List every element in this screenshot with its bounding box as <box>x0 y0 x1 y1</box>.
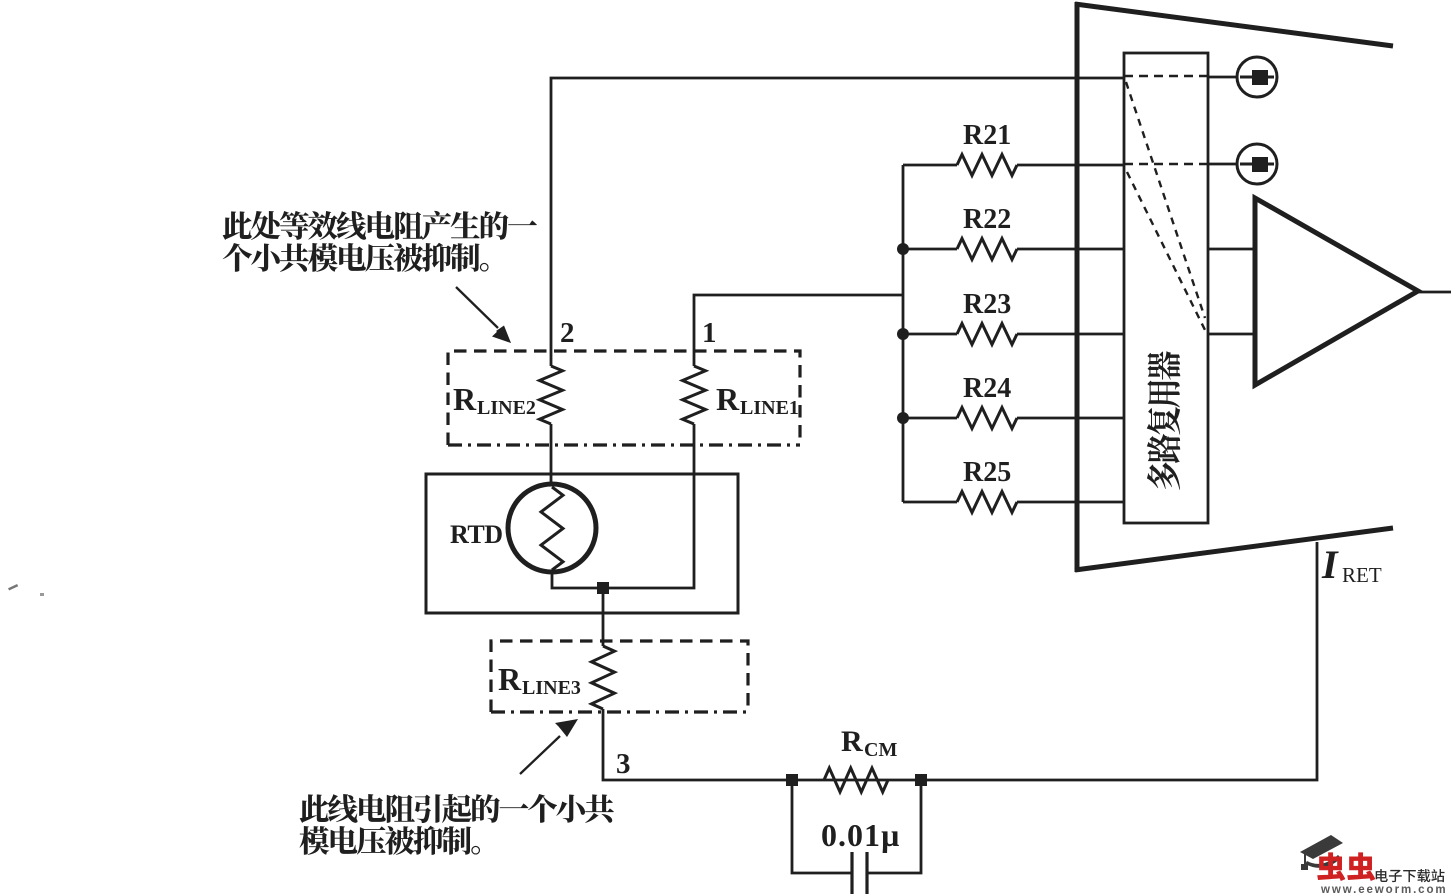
wire R25 to multiplexer <box>1017 501 1124 504</box>
RTD internal zigzag <box>541 487 563 570</box>
bus junction dot y=249 <box>897 243 909 255</box>
junction node below RTD <box>597 582 609 594</box>
svg-text:R: R <box>841 725 863 758</box>
op-amp output wire <box>1419 291 1451 294</box>
bus junction dot y=418 <box>897 412 909 424</box>
svg-text:www.eeworm.com: www.eeworm.com <box>1320 884 1448 894</box>
resistor R23 <box>957 324 1017 345</box>
wire 1: above R_LINE1 up and right to bus <box>694 295 903 366</box>
capacitor C1 plate left <box>850 852 853 894</box>
capacitor C1 plate right <box>865 852 868 894</box>
wire bus to R21 <box>903 164 957 167</box>
wire 1: below R_LINE1 down into RTD box to bottom node <box>552 424 694 588</box>
IC chip outline: top slanted edge <box>1075 4 1393 46</box>
annotation arrow top <box>456 287 498 328</box>
wire R24 to multiplexer <box>1017 417 1124 420</box>
svg-text:I: I <box>1321 542 1339 587</box>
resistor R22 <box>957 239 1017 260</box>
dashed box around R_LINE3 <box>491 641 748 712</box>
annotation arrow bottom <box>520 736 560 774</box>
bottom wire: node 3 to I_RET riser <box>603 542 1317 780</box>
wire R21 to multiplexer <box>1017 164 1124 167</box>
svg-text:0.01µ: 0.01µ <box>821 817 900 853</box>
resistor R21 <box>957 155 1017 176</box>
svg-text:R: R <box>498 661 522 697</box>
watermark logo: graduation cap <box>1300 835 1343 870</box>
RTD circle <box>508 484 596 572</box>
resistor R_LINE1 <box>683 366 706 424</box>
junction square left of R_CM <box>786 774 798 786</box>
svg-text:R: R <box>716 381 740 417</box>
svg-text:R23: R23 <box>963 289 1011 320</box>
RTD box <box>426 474 738 613</box>
watermark 虫虫 <box>1317 852 1375 881</box>
terminal 2 <box>1208 144 1277 184</box>
dashed box around R_LINE1/R_LINE2 <box>448 351 800 445</box>
wire capacitor branch right <box>867 786 921 873</box>
annotation text top: 此处等效线电阻产生的一 / 个小共模电压被抑制。 <box>223 211 537 240</box>
svg-text:RTD: RTD <box>450 520 502 549</box>
wire R23 to multiplexer <box>1017 333 1124 336</box>
terminal 1 <box>1208 57 1277 97</box>
wire bus to R24 <box>903 417 957 420</box>
resistor R_CM <box>824 768 888 792</box>
wire bus to R25 <box>903 501 957 504</box>
op-amp U1 <box>1255 198 1418 385</box>
junction square right of R_CM <box>915 774 927 786</box>
wire bus to R23 <box>903 333 957 336</box>
wire junction down to R_LINE3 <box>602 588 605 646</box>
svg-text:LINE1: LINE1 <box>740 397 799 419</box>
multiplexer label 多路复用器 (rotated) <box>1147 351 1181 490</box>
annotation text bottom: 此线电阻引起的一个小共 / 模电压被抑制。 <box>300 794 614 823</box>
resistor R24 <box>957 408 1017 429</box>
resistor R_LINE3 <box>592 646 615 709</box>
wire below R_LINE2 into RTD circle <box>550 424 553 486</box>
svg-text:CM: CM <box>864 739 897 761</box>
svg-text:LINE3: LINE3 <box>522 677 581 699</box>
wire R22 to multiplexer <box>1017 248 1124 251</box>
IC chip outline: bottom slanted edge <box>1075 528 1393 570</box>
wire bus to R22 <box>903 248 957 251</box>
bus junction dot y=334 <box>897 328 909 340</box>
mux dashed row to terminal 1 <box>1124 75 1208 78</box>
resistor R25 <box>957 492 1017 513</box>
resistor R_LINE2 <box>540 366 563 424</box>
mux dashed row to terminal 2 <box>1124 163 1208 166</box>
multiplexer box <box>1124 53 1208 523</box>
svg-text:2: 2 <box>560 317 575 349</box>
scan specks <box>8 584 18 590</box>
svg-text:RET: RET <box>1342 563 1382 587</box>
svg-text:LINE2: LINE2 <box>477 397 536 419</box>
mux dashed diagonal 2 <box>1127 172 1205 330</box>
svg-text:R21: R21 <box>963 120 1011 151</box>
svg-text:1: 1 <box>702 317 717 349</box>
svg-text:3: 3 <box>616 748 631 780</box>
op-amp input wire A <box>1208 248 1255 251</box>
svg-text:R24: R24 <box>963 373 1011 404</box>
svg-text:R22: R22 <box>963 204 1011 235</box>
watermark 电子下载站 <box>1376 869 1445 882</box>
svg-text:R25: R25 <box>963 457 1011 488</box>
wire capacitor branch left <box>792 786 852 873</box>
svg-text:R: R <box>453 381 477 417</box>
IC chip outline: left edge <box>1075 2 1080 572</box>
mux dashed diagonal 1 <box>1126 82 1205 318</box>
wire: node 2 vertical and top horizontal to mux <box>551 78 1124 366</box>
left bus vertical <box>902 165 905 502</box>
